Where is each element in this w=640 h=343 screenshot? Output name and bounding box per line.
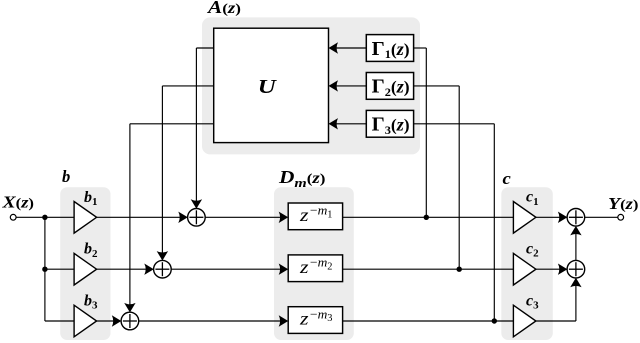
svg-text:b: b	[62, 167, 70, 186]
svg-text:Γ1(z): Γ1(z)	[372, 38, 410, 61]
amplifier c1	[513, 202, 536, 234]
svg-text:z: z	[299, 309, 309, 329]
feedback block Gamma2(z)	[366, 73, 413, 100]
label c2	[526, 241, 539, 260]
label A(z)	[207, 0, 242, 17]
wire c1 to adder S4	[536, 212, 568, 223]
wire tap3 up to Gamma3	[414, 124, 495, 321]
node tap row1	[424, 215, 429, 220]
wire c2 to adder S5	[536, 264, 568, 275]
node Y output terminal	[618, 214, 624, 220]
panel A(z) background	[202, 17, 420, 154]
svg-text:Γ2(z): Γ2(z)	[372, 76, 410, 99]
wire delay m3 to c3	[343, 320, 514, 322]
label c3	[526, 292, 539, 311]
wire U out2 to adder S2	[157, 86, 214, 261]
mixing matrix U	[214, 28, 329, 142]
wire S2 to delay m2	[171, 264, 288, 275]
wire delay m2 to c2	[343, 268, 514, 270]
amplifier b1	[74, 202, 97, 234]
wire b2 to adder S2	[97, 264, 154, 275]
node tap row2	[457, 267, 462, 272]
amplifier b2	[74, 253, 97, 285]
adder S5	[567, 260, 585, 278]
label b2	[84, 241, 98, 260]
panel c background	[501, 187, 553, 340]
adder S2	[154, 260, 172, 278]
adder S1	[188, 209, 206, 227]
label c1	[526, 189, 539, 208]
label Y(z) output	[608, 194, 639, 213]
wire delay m1 to c1	[343, 216, 514, 218]
wire input to b2	[45, 268, 74, 270]
feedback block Gamma3(z)	[366, 110, 413, 137]
wire tap2 up to Gamma2	[414, 86, 460, 269]
wire b3 to adder S3	[97, 315, 122, 326]
feedback block Gamma1(z)	[366, 35, 413, 62]
delay block z^-m2	[288, 255, 342, 282]
wire Gamma2 to U	[329, 80, 367, 91]
svg-text:c: c	[503, 169, 512, 188]
wire U out1 to adder S1	[191, 48, 214, 209]
node input junction row1	[42, 215, 47, 220]
panel Dm background	[274, 187, 354, 340]
svg-text:z: z	[299, 257, 309, 277]
wire Gamma3 to U	[329, 118, 367, 129]
svg-text:Γ3(z): Γ3(z)	[372, 114, 410, 137]
amplifier c3	[513, 305, 536, 337]
label b group	[62, 167, 70, 186]
wire c3 to adder S5	[536, 278, 582, 321]
wire S1 to delay m1	[205, 212, 288, 223]
label X(z) input	[1, 193, 34, 212]
wire input bus vertical	[44, 217, 46, 321]
label c group	[503, 169, 512, 188]
delay block z^-m1	[288, 203, 342, 230]
wire input to b3	[45, 320, 74, 322]
panel b background	[60, 187, 110, 340]
node X input terminal	[10, 214, 16, 220]
wire input to b1	[16, 216, 74, 218]
amplifier b3	[74, 305, 97, 337]
node tap row3	[492, 318, 497, 323]
label b3	[84, 293, 98, 312]
amplifier c2	[513, 253, 536, 285]
wire b1 to adder S1	[97, 212, 188, 223]
wire Gamma1 to U	[329, 42, 367, 53]
adder S3	[121, 312, 139, 330]
svg-text:z: z	[299, 205, 309, 225]
wire S5 to S4	[570, 226, 581, 261]
wire tap1 up to Gamma1	[414, 48, 427, 217]
adder S4	[567, 209, 585, 227]
wire S4 to output	[585, 216, 618, 218]
node input junction row2	[42, 267, 47, 272]
label b1	[84, 189, 98, 208]
delay block z^-m3	[288, 306, 342, 333]
svg-text:U: U	[258, 77, 277, 98]
svg-text:A(z): A(z)	[207, 0, 242, 17]
label Dm(z)	[278, 167, 326, 190]
wire U out3 to adder S3	[124, 124, 214, 313]
wire S3 to delay m3	[139, 315, 289, 326]
